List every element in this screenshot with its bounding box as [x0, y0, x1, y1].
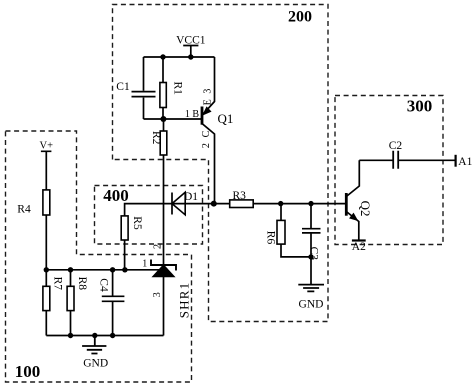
wire bottom rail	[46, 335, 163, 337]
svg-text:R3: R3	[232, 190, 246, 202]
resistor R8	[67, 270, 74, 336]
svg-text:R4: R4	[17, 204, 31, 216]
capacitor C1	[132, 57, 156, 119]
node junction C3 top	[308, 201, 313, 206]
node junction GND	[92, 333, 97, 338]
svg-text:SHR1: SHR1	[177, 282, 192, 319]
wire top rail	[144, 56, 215, 58]
block 400 dashed boundary	[95, 186, 203, 245]
wire left rail to SHR1 pin1	[46, 269, 159, 271]
svg-text:V+: V+	[40, 141, 54, 152]
node junction R6	[278, 201, 283, 206]
svg-text:A2: A2	[352, 241, 366, 253]
block 100 dashed boundary	[6, 131, 192, 382]
block 200 dashed boundary	[113, 5, 329, 322]
svg-text:E 3: E 3	[202, 87, 213, 105]
svg-text:C1: C1	[116, 81, 130, 93]
wire C2 to A1	[399, 159, 456, 161]
power V+ symbol	[41, 151, 52, 190]
node junction C4 top	[110, 267, 115, 272]
node junction C4 bottom	[110, 333, 115, 338]
resistor R4	[43, 190, 50, 270]
svg-text:1 B: 1 B	[185, 109, 200, 120]
transistor Q2 emitter arrow	[350, 214, 357, 221]
svg-text:GND: GND	[83, 358, 108, 370]
node junction top VCC	[188, 54, 193, 59]
svg-text:R6: R6	[264, 231, 276, 245]
wire SHR1 pin3	[163, 277, 165, 336]
svg-text:3: 3	[152, 292, 163, 297]
wire D1 row	[164, 203, 214, 205]
capacitor C4	[102, 270, 125, 336]
resistor R6	[277, 204, 311, 257]
svg-text:C2: C2	[389, 140, 403, 152]
svg-text:400: 400	[103, 186, 129, 205]
transistor Q1	[202, 57, 215, 204]
transistor Q2	[346, 160, 359, 239]
port A2	[352, 239, 366, 241]
port A1	[455, 155, 457, 167]
svg-text:1: 1	[142, 259, 147, 270]
node junction R6 C3 bottom	[308, 254, 313, 259]
node junction R4 R7	[44, 267, 49, 272]
svg-text:Q2: Q2	[358, 201, 373, 217]
svg-text:R5: R5	[131, 216, 143, 230]
svg-text:A1: A1	[458, 156, 472, 168]
node junction R8 top	[68, 267, 73, 272]
svg-text:2 C: 2 C	[201, 129, 212, 148]
svg-text:GND: GND	[299, 299, 324, 311]
power VCC1 symbol	[183, 46, 198, 58]
capacitor C2	[393, 151, 398, 169]
wire base rail	[144, 118, 202, 120]
node junction R8 bottom	[68, 333, 73, 338]
node junction collector D1 R3	[211, 201, 217, 207]
wire collector to C2	[359, 159, 392, 161]
ground left	[82, 336, 106, 354]
svg-text:VCC1: VCC1	[176, 35, 206, 47]
node junction top R1	[160, 54, 165, 59]
block 300 dashed boundary	[335, 96, 443, 245]
svg-text:100: 100	[15, 362, 41, 381]
thyristor SHR1	[151, 260, 176, 277]
node junction R5 bottom	[122, 267, 127, 272]
diode D1	[172, 192, 185, 215]
resistor R1	[160, 57, 166, 119]
svg-text:R2: R2	[150, 131, 162, 145]
svg-text:2: 2	[152, 244, 163, 249]
wire R2 to SHR1 pin2	[163, 155, 165, 265]
node junction base	[160, 116, 166, 122]
svg-text:D1: D1	[184, 191, 198, 203]
capacitor C3	[302, 204, 321, 285]
svg-text:Q1: Q1	[218, 111, 234, 126]
resistor R5	[121, 204, 163, 270]
resistor R2	[160, 119, 167, 155]
svg-text:R8: R8	[76, 277, 88, 291]
ground right	[298, 285, 324, 292]
resistor R3	[214, 200, 346, 208]
svg-text:R1: R1	[171, 81, 183, 95]
svg-text:C4: C4	[97, 278, 109, 292]
svg-text:R7: R7	[52, 277, 64, 291]
transistor Q1 emitter arrow	[203, 107, 211, 115]
svg-text:300: 300	[407, 97, 433, 116]
resistor R7	[43, 270, 50, 336]
svg-text:200: 200	[288, 9, 312, 26]
